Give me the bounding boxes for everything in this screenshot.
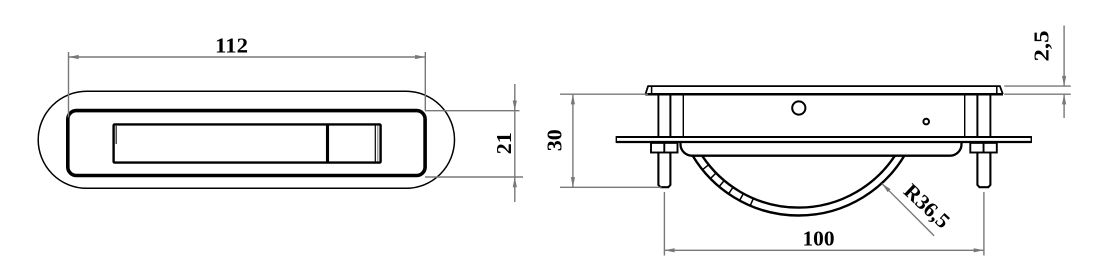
dimension 100: arrowheads [664,248,674,252]
front view: flap inner edge line left [115,126,117,144]
dimension 100: extension lines [664,192,984,256]
side view: spindle hole [792,101,805,114]
front view: flap edge detail lines [374,126,376,162]
front view: recess rim [68,111,425,176]
dimension 112: dimension line [69,56,426,58]
side view: right screw boss [965,95,991,137]
side view: left nut [651,143,678,153]
side view: left stud [658,153,670,188]
front view: flap divider [326,126,329,162]
side view: small pin hole [923,119,929,125]
side view: top flange outline [646,86,1003,94]
side view: right nut [970,143,997,153]
dimension 112: arrowheads [69,55,79,59]
dimension 2,5: extension lines [1004,26,1071,119]
front view: outer cover plate outline [38,91,454,188]
dimension 112: extension lines [69,52,426,117]
side view: pan bottom with rounded corners [681,143,962,156]
front view: flap panel [114,124,381,162]
dimension 2,5: arrowheads [1062,76,1066,86]
svg-text:21: 21 [492,132,516,154]
dimension 21: extension lines [425,84,523,202]
dimension 30: extension lines [560,94,662,187]
side view: bowl inner arc R36.5 [702,156,895,208]
radius R36,5: leader line [882,184,934,236]
svg-text:112: 112 [215,33,248,57]
dimension 2,5: dimension line segments [1063,26,1065,87]
svg-text:2,5: 2,5 [1030,31,1054,62]
svg-text:30: 30 [543,129,567,151]
dimension 30: dimension line [572,94,574,187]
side view: top flange bottom edge [645,93,1003,96]
side view: flange chamfer inner edges [651,86,653,94]
side view: left screw boss [658,95,683,137]
dimension 21: arrowheads [513,101,517,111]
side view: bowl outer arc [693,156,905,216]
dimension 21: dimension line [514,84,516,202]
side view: spring section ticks [703,165,754,206]
radius R36,5: arrowhead [882,184,891,193]
svg-text:100: 100 [803,227,835,251]
side view: right stud [977,153,990,188]
svg-text:R36,5: R36,5 [899,179,955,233]
side view: mounting plate [616,136,1031,143]
dimension 100: dimension line [664,249,984,251]
dimension 30: arrowheads [571,94,575,104]
